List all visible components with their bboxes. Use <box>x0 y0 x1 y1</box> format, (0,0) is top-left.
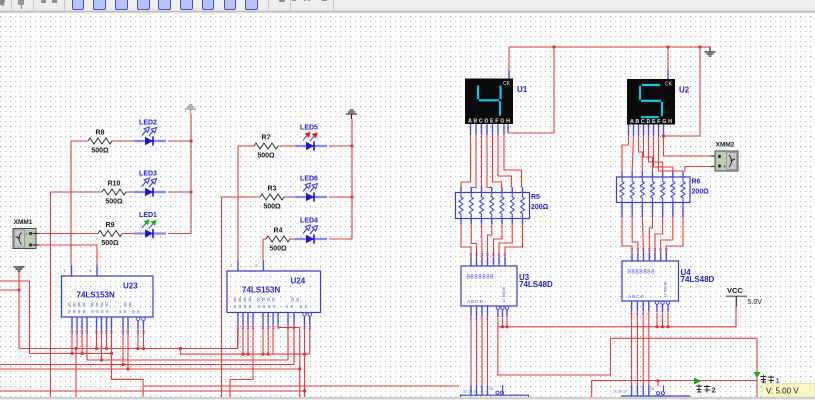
svg-text:VCC: VCC <box>727 286 743 295</box>
R5 bottom pin stubs <box>461 219 523 225</box>
svg-text:15: 15 <box>650 387 654 391</box>
resistor pack R6 <box>617 177 710 203</box>
wire U2 F to R6 <box>654 136 673 172</box>
multimeter XMM2 <box>715 142 738 172</box>
svg-text:13: 13 <box>469 253 473 257</box>
horizontal scrollbar strip <box>0 397 815 400</box>
R6 top pin stubs <box>622 172 683 178</box>
wire bus H2b step <box>179 325 310 355</box>
svg-text:12: 12 <box>286 326 290 330</box>
wire U3 out2 <box>476 316 478 395</box>
wire bus H6 <box>0 390 305 392</box>
wire U23 p1 <box>71 329 73 354</box>
wire R3 row <box>222 196 353 198</box>
resistor R8 <box>88 130 112 155</box>
junction top rail right <box>698 45 701 48</box>
junction U3 bub 507 <box>505 318 508 329</box>
svg-text:8888888: 8888888 <box>628 270 656 276</box>
svg-text:LED4: LED4 <box>300 218 318 225</box>
svg-text:200Ω: 200Ω <box>692 189 710 196</box>
svg-text:12: 12 <box>100 330 104 334</box>
svg-text:500Ω: 500Ω <box>269 246 287 253</box>
wire R5 r2-q2 <box>471 224 476 253</box>
junction H3 p6 <box>100 358 103 361</box>
svg-text:12: 12 <box>121 330 125 334</box>
wire U24 p8 jog <box>278 325 300 398</box>
svg-text:LT RBI BI: LT RBI BI <box>664 282 668 297</box>
svg-text:U24: U24 <box>291 277 306 286</box>
junction H1 p11 <box>136 347 139 350</box>
svg-text:A B C D: A B C D <box>467 299 484 304</box>
svg-text:13: 13 <box>636 248 640 252</box>
wire R6 r6-t6 <box>661 217 673 253</box>
svg-text:12: 12 <box>241 326 245 330</box>
svg-text:21 20 17: 21 20 17 <box>463 390 477 394</box>
wire R5 r3-q3 <box>481 224 484 253</box>
wire y386 line <box>143 385 459 387</box>
svg-text:74LS48D: 74LS48D <box>519 280 553 289</box>
wire U2 A to R6 <box>622 136 629 172</box>
wire U2 G to R6 <box>659 136 684 172</box>
svg-text:12: 12 <box>261 326 265 330</box>
svg-text:LED1: LED1 <box>139 212 157 219</box>
svg-text:R6: R6 <box>692 179 701 186</box>
svg-text:LED2: LED2 <box>139 120 157 127</box>
wire U1 D to R5 <box>487 135 491 188</box>
wire U23 p6 <box>101 329 103 360</box>
junction H2b 248 <box>246 353 249 356</box>
LED LED3 <box>134 171 166 197</box>
VCC arrow left <box>185 105 196 114</box>
svg-text:7: 7 <box>641 313 645 315</box>
wire U23 p5 <box>96 329 98 349</box>
wire U2 B to R6 <box>632 136 633 172</box>
wire R5 r6-q6 <box>499 224 512 253</box>
svg-text:500Ω: 500Ω <box>91 148 109 155</box>
IC U4 74LS48D <box>622 248 715 315</box>
junction U3 bub 502.5 <box>501 318 504 329</box>
svg-text:12: 12 <box>110 330 114 334</box>
svg-text:7: 7 <box>630 313 634 315</box>
svg-text:13: 13 <box>659 248 663 252</box>
probe1 arrow <box>754 372 761 378</box>
wire XMM1 minus <box>33 245 98 266</box>
svg-text:U23: U23 <box>123 282 138 291</box>
ground XMM1 <box>14 267 25 271</box>
svg-text:500Ω: 500Ω <box>257 153 275 160</box>
svg-text:74LS153N: 74LS153N <box>242 286 280 295</box>
junction XMM2 H pin <box>662 134 665 137</box>
svg-text:R8: R8 <box>96 130 105 137</box>
svg-text:500Ω: 500Ω <box>105 199 123 206</box>
svg-text:12: 12 <box>303 326 307 330</box>
junction H2a 72 <box>70 352 73 355</box>
wire U1 A to R5 <box>461 135 471 188</box>
resistor R9 <box>98 222 122 247</box>
svg-text:R4: R4 <box>274 228 283 235</box>
wire bus H3 <box>87 329 288 360</box>
junction H1 p5 <box>95 347 98 350</box>
svg-text:12: 12 <box>95 330 99 334</box>
svg-text:12: 12 <box>266 326 270 330</box>
probe2 label <box>696 385 716 395</box>
svg-text:13: 13 <box>642 248 646 252</box>
junction LED5 right <box>350 144 353 147</box>
svg-text:12: 12 <box>70 330 74 334</box>
wire U3 out4 <box>487 316 489 395</box>
svg-text:A B C D E F G H: A B C D E F G H <box>630 119 672 125</box>
LED LED6 <box>295 176 327 202</box>
yellow tooltip <box>762 384 815 398</box>
wire mid ground vertical <box>351 119 353 239</box>
wire U4 out4 <box>648 311 650 396</box>
svg-text:12: 12 <box>85 330 89 334</box>
wire U1 E to R5 <box>493 135 502 188</box>
junction U4 bub 662.5 <box>661 313 664 329</box>
svg-text:8888888: 8888888 <box>467 275 495 281</box>
svg-text:21 20 17: 21 20 17 <box>613 390 627 394</box>
svg-text:12: 12 <box>126 330 130 334</box>
svg-text:7: 7 <box>635 313 639 315</box>
svg-text:200Ω: 200Ω <box>531 204 549 211</box>
svg-text:12: 12 <box>236 326 240 330</box>
svg-text:R9: R9 <box>106 222 115 229</box>
wire R3 drop <box>221 197 223 397</box>
junction U4 bub 668 <box>666 313 669 329</box>
wire R5 r5-q5 <box>494 224 503 253</box>
svg-text:12: 12 <box>142 330 146 334</box>
junction H2a 111.5 <box>110 352 113 355</box>
wire U23 p12 <box>143 329 145 349</box>
svg-text:LED6: LED6 <box>300 176 318 183</box>
svg-text:12: 12 <box>105 330 109 334</box>
svg-text:13: 13 <box>664 248 668 252</box>
svg-text:7: 7 <box>486 318 490 320</box>
wire R4 row <box>263 238 352 240</box>
svg-text:7: 7 <box>469 318 473 320</box>
ground top right <box>705 47 716 56</box>
wire U23 p3 <box>81 329 83 354</box>
multimeter XMM1 <box>13 219 36 249</box>
probe2 arrow <box>694 378 701 385</box>
svg-text:+: + <box>723 164 726 170</box>
probe1 label <box>761 375 780 385</box>
wire U23 p10 <box>127 329 129 369</box>
resistor pack R5 <box>456 193 549 219</box>
junction LED6 right <box>350 195 353 198</box>
wire U1 C to R5 <box>481 135 483 188</box>
wire U2 D to R6 <box>644 136 653 172</box>
R5 top pin stubs <box>461 187 523 193</box>
resistor R4 <box>266 228 290 253</box>
wire bus H1 <box>19 329 238 349</box>
svg-text:12: 12 <box>308 326 312 330</box>
svg-text:74LS48D: 74LS48D <box>681 275 715 284</box>
wire XMM2 plus <box>664 136 716 156</box>
wire left VCC vertical <box>190 114 192 234</box>
svg-text:7: 7 <box>647 313 651 315</box>
wire R6 r1-t1 <box>622 217 632 253</box>
wire U2 C to R6 <box>639 136 643 172</box>
junction H1 p2 <box>74 347 77 350</box>
chip bottom-right partial <box>613 386 689 400</box>
svg-text:74LS153N: 74LS153N <box>77 291 115 300</box>
svg-text:12: 12 <box>75 330 79 334</box>
junction H4 p9 <box>121 363 124 366</box>
wire probe2 chip stub <box>656 379 659 386</box>
chip bottom-middle partial <box>461 385 529 400</box>
wire U24 p7 <box>272 325 274 355</box>
svg-text:XMM2: XMM2 <box>716 142 735 149</box>
svg-text:500Ω: 500Ω <box>263 204 281 211</box>
junction H2b 268.2 <box>267 353 270 356</box>
svg-text:LED3: LED3 <box>139 171 157 178</box>
wire R4 drop to U24 <box>262 239 264 261</box>
wire bus H2a <box>30 353 112 355</box>
wire U24 p9 <box>287 325 289 361</box>
IC U24 74LS153N <box>227 261 321 330</box>
svg-text:A B C D: A B C D <box>628 294 645 299</box>
svg-text:U1: U1 <box>517 85 528 94</box>
svg-text:13: 13 <box>630 248 634 252</box>
wire left edge y290 <box>0 289 19 291</box>
wire U24 p11 <box>303 325 306 398</box>
junction LED3 right <box>189 190 192 193</box>
wire U4 bub1 down <box>655 313 658 329</box>
resistor R7 <box>254 135 278 160</box>
wire XMM1 plus <box>33 233 40 235</box>
junction H1 p7 <box>105 347 108 350</box>
LED LED4 <box>295 218 327 244</box>
wire R6 r7-t7 <box>666 217 683 253</box>
svg-text:U2: U2 <box>679 86 690 95</box>
wire VCC line <box>498 307 736 327</box>
svg-text:!: ! <box>26 233 27 239</box>
LED LED1 <box>134 212 166 238</box>
svg-text:13: 13 <box>486 253 490 257</box>
svg-text:A B C D E F G H: A B C D E F G H <box>468 119 510 125</box>
junction ground stem <box>17 288 20 291</box>
U2 pin stubs <box>629 124 659 136</box>
wire XMM2 minus <box>685 167 716 172</box>
wire R6 r4-t4 <box>649 217 652 253</box>
svg-text:5.0V: 5.0V <box>748 299 763 306</box>
wire U23 p11 <box>137 329 139 349</box>
LED LED5 <box>295 125 327 151</box>
wire U24 p10 <box>293 325 295 365</box>
junction H2a 82 <box>80 352 83 355</box>
svg-text:V: 5.00 V: V: 5.00 V <box>766 387 799 396</box>
svg-text:13: 13 <box>480 253 484 257</box>
U1 pin stubs <box>471 124 505 135</box>
svg-text:13: 13 <box>647 248 651 252</box>
wire U24 p5 <box>262 325 264 355</box>
svg-text:7: 7 <box>475 318 479 320</box>
svg-text:500Ω: 500Ω <box>101 240 119 247</box>
wire U1 F to R5 <box>498 135 512 188</box>
junction LED2 right <box>189 139 192 142</box>
svg-text:12: 12 <box>246 326 250 330</box>
display U1 <box>465 79 528 125</box>
wire U2 CK riser <box>667 47 669 79</box>
wire R7 row <box>238 145 352 147</box>
wire R7 drop to U24 <box>237 146 239 261</box>
wire top rail <box>509 46 705 48</box>
wire R5 r7-q7 <box>505 224 523 253</box>
svg-text:R3: R3 <box>268 186 277 193</box>
svg-text:12: 12 <box>80 330 84 334</box>
wire probe box <box>592 381 757 398</box>
ground mid top <box>346 110 357 119</box>
svg-text:12: 12 <box>136 330 140 334</box>
wire U1 CK riser <box>508 47 510 79</box>
svg-text:15: 15 <box>489 387 493 391</box>
U3 top stubs red-blue <box>471 253 505 258</box>
wire U24 p3 <box>247 325 249 355</box>
toolbar <box>0 0 815 14</box>
wire bus H5 <box>0 368 300 370</box>
junction H1 p12 <box>142 347 145 350</box>
wire U2 E to R6 <box>649 136 663 172</box>
IC U23 74LS153N <box>62 266 154 335</box>
wire U23 p8 staircase <box>112 329 144 397</box>
svg-text:13: 13 <box>492 253 496 257</box>
svg-text:R5: R5 <box>531 194 540 201</box>
wire U24 p2 <box>242 325 244 355</box>
wire R9 row <box>39 233 191 235</box>
wire U2 H-pin to rail <box>664 47 701 136</box>
junction H2b 263 <box>261 353 264 356</box>
svg-text:7: 7 <box>480 318 484 320</box>
wire U23 p2 <box>76 329 77 397</box>
wire U23 p7 <box>106 329 108 349</box>
wire bus H4 <box>0 329 294 365</box>
svg-text:CK: CK <box>665 82 673 88</box>
svg-text:12: 12 <box>271 326 275 330</box>
wire U24 p4 staircase <box>230 325 253 398</box>
wire U3 out1 <box>470 316 472 395</box>
wire R8 drop to U23 pin <box>70 141 72 266</box>
junction top rail at U1 riser <box>552 45 555 48</box>
svg-text:12: 12 <box>292 326 296 330</box>
wire U1 B to R5 <box>471 135 476 188</box>
svg-text:R10: R10 <box>108 181 121 188</box>
svg-text:13: 13 <box>497 253 501 257</box>
wire R5 r4-q4 <box>488 224 492 253</box>
wire R10 row <box>51 191 192 193</box>
svg-text:2: 2 <box>712 386 716 395</box>
wire U4 out3 <box>642 311 644 396</box>
wire R10 drop <box>50 192 52 397</box>
wire R8 row <box>71 140 191 142</box>
wire U24 p1 <box>237 325 239 349</box>
junction H2b 243 <box>241 353 244 356</box>
svg-text:12: 12 <box>276 326 280 330</box>
wire U4 out1 <box>631 311 633 396</box>
resistor R3 <box>260 186 284 211</box>
svg-text:LED5: LED5 <box>300 125 318 132</box>
wire R6 r5-t5 <box>655 217 663 253</box>
IC U3 74LS48D <box>461 253 553 320</box>
svg-text:LT RBI BI: LT RBI BI <box>502 287 506 302</box>
R6 bottom stubs <box>622 203 683 218</box>
wire ground stem to H1 <box>18 271 20 349</box>
U4 top stubs red <box>632 252 666 254</box>
wire U1 H-pin to rail <box>508 47 554 133</box>
wire R5 r1-q1 <box>461 224 471 253</box>
svg-text:R7: R7 <box>262 135 271 142</box>
junction H5 p10 <box>126 367 129 370</box>
svg-text:CK: CK <box>503 81 511 87</box>
wire R6 r2-t2 <box>632 217 638 253</box>
svg-text:13: 13 <box>475 253 479 257</box>
junction top rail at U2 riser <box>666 45 669 48</box>
wire probe1 staircase <box>498 318 757 382</box>
display U2 <box>627 79 690 125</box>
wire left edge y281 <box>0 281 30 354</box>
svg-text:13: 13 <box>503 253 507 257</box>
LED LED2 <box>134 120 166 146</box>
svg-text:12: 12 <box>251 326 255 330</box>
resistor R10 <box>102 181 126 206</box>
junction H5 p8drop <box>298 367 301 370</box>
wire U23 p9 <box>122 329 124 365</box>
wire U24 p6 <box>267 325 269 355</box>
junction H2b 304.5 <box>303 353 306 356</box>
svg-text:XMM1: XMM1 <box>14 219 33 226</box>
wire U1 G to R5 <box>504 135 522 188</box>
VCC symbol <box>726 286 763 307</box>
wire R6 r3-t3 <box>642 217 643 253</box>
wire U3 out3 <box>481 316 483 395</box>
wire U4 out2 <box>636 311 638 396</box>
svg-text:13: 13 <box>653 248 657 252</box>
